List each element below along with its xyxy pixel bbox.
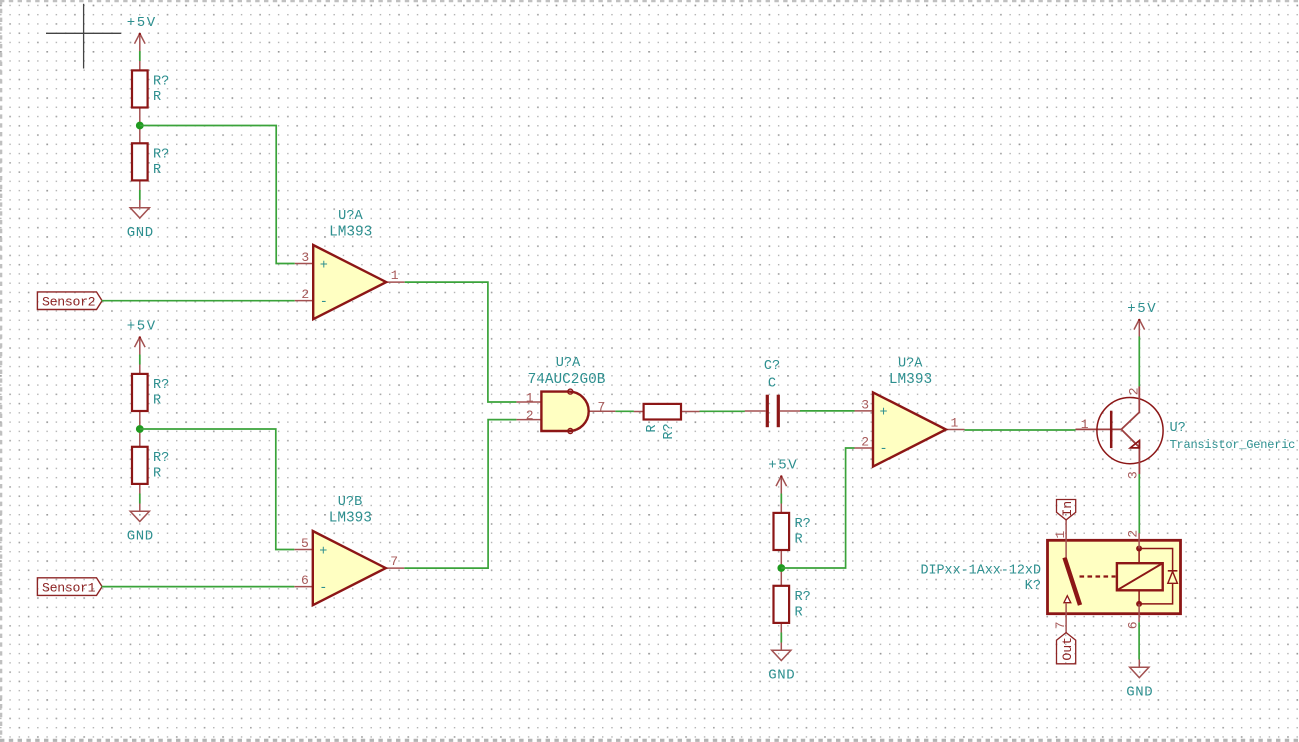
- resistor R? (divider3 top) (vertical): [774, 494, 790, 568]
- hierarchical label Out: [1057, 633, 1076, 664]
- junction node divider2 mid: [136, 425, 144, 433]
- svg-text:GND: GND: [127, 529, 154, 545]
- svg-text:Transistor_Generic: Transistor_Generic: [1170, 438, 1296, 452]
- svg-text:R: R: [153, 393, 161, 408]
- svg-text:-: -: [319, 581, 327, 596]
- power symbol +5V (PWR2): [135, 336, 146, 354]
- wire Sensor1 to U?B pin6: [102, 586, 295, 588]
- svg-text:6: 6: [1125, 621, 1140, 629]
- svg-text:R?: R?: [662, 423, 677, 439]
- svg-text:7: 7: [1053, 621, 1068, 629]
- svg-text:R: R: [645, 424, 660, 432]
- svg-text:3: 3: [861, 397, 869, 412]
- relay coil box: [1117, 563, 1163, 590]
- relay pin 7 lead: [1065, 603, 1067, 633]
- svg-text:2: 2: [301, 287, 309, 302]
- junction coil top node: [1136, 546, 1142, 552]
- svg-text:3: 3: [1126, 471, 1141, 479]
- svg-text:Sensor1: Sensor1: [42, 580, 96, 595]
- svg-text:1: 1: [951, 415, 959, 430]
- svg-text:3: 3: [301, 250, 309, 265]
- power symbol +5V (PWR4 (transistor collector)): [1134, 319, 1145, 337]
- wire comparator3 output to transistor base: [965, 429, 1076, 431]
- svg-text:+5V: +5V: [1127, 301, 1157, 317]
- svg-text:1: 1: [1081, 417, 1089, 432]
- svg-text:2: 2: [526, 408, 534, 423]
- svg-text:R?: R?: [153, 378, 169, 393]
- svg-text:1: 1: [526, 391, 534, 406]
- resistor R? (horizontal, after gate): [634, 404, 700, 420]
- svg-text:C: C: [768, 376, 776, 391]
- wire +5V to R? (divider3 top): [780, 494, 782, 504]
- svg-text:R?: R?: [153, 148, 169, 163]
- wire gate output to horizontal resistor: [615, 410, 633, 412]
- junction coil bottom node: [1136, 601, 1142, 607]
- svg-text:K?: K?: [1025, 579, 1041, 594]
- svg-text:R?: R?: [795, 517, 811, 532]
- relay K? (DIPxx-1Axx-12xD) body: [1048, 540, 1181, 613]
- svg-text:-: -: [320, 295, 328, 310]
- svg-text:+5V: +5V: [127, 15, 157, 31]
- svg-text:Out: Out: [1060, 637, 1075, 661]
- sheet border top: [0, 0, 1299, 2]
- svg-text:U?B: U?B: [338, 495, 362, 510]
- svg-text:+: +: [320, 258, 328, 273]
- svg-text:R?: R?: [795, 590, 811, 605]
- svg-text:U?A: U?A: [898, 357, 923, 372]
- svg-text:74AUC2G0B: 74AUC2G0B: [528, 372, 606, 388]
- svg-text:C?: C?: [764, 359, 780, 374]
- svg-text:LM393: LM393: [329, 511, 372, 527]
- transistor Q U? (Transistor_Generic NPN): [1076, 386, 1164, 474]
- svg-text:+5V: +5V: [768, 458, 798, 474]
- svg-text:R?: R?: [153, 451, 169, 466]
- svg-text:Sensor2: Sensor2: [42, 294, 95, 309]
- wire horizontal resistor to capacitor: [700, 410, 745, 412]
- svg-text:R: R: [795, 532, 803, 547]
- relay switch contact: [1064, 596, 1071, 603]
- sheet border left: [0, 0, 2, 742]
- op-amp U?A (comparator 3): [855, 392, 965, 466]
- wire R? (divider3 bottom) to GND: [780, 633, 782, 643]
- svg-text:1: 1: [391, 268, 399, 283]
- junction node divider1 mid: [136, 122, 144, 130]
- relay actuator dashed link: [1080, 575, 1116, 577]
- svg-text:7: 7: [598, 400, 606, 415]
- svg-text:5: 5: [301, 536, 309, 551]
- svg-text:LM393: LM393: [329, 225, 372, 241]
- svg-text:R: R: [153, 90, 161, 105]
- op-amp U?B (comparator 2): [294, 531, 404, 605]
- svg-text:LM393: LM393: [889, 372, 932, 388]
- svg-text:+: +: [319, 544, 327, 559]
- wire transistor emitter to relay pin2: [1138, 474, 1140, 533]
- junction node divider3 mid: [777, 564, 785, 572]
- svg-text:2: 2: [1125, 530, 1140, 538]
- capacitor C?: [745, 395, 801, 428]
- power symbol GND (GND2): [130, 503, 149, 521]
- wire capacitor to U?A comparator3 pin3: [800, 410, 855, 412]
- svg-text:6: 6: [301, 573, 309, 588]
- svg-text:GND: GND: [768, 668, 795, 684]
- svg-text:In: In: [1060, 501, 1075, 517]
- resistor R? (divider1 bottom) (vertical): [132, 125, 148, 199]
- wire divider2 node to U?B pin5: [140, 429, 294, 550]
- hierarchical label Sensor2 (input label Sensor2): [37, 292, 102, 310]
- wire U?A output to gate pin1: [405, 282, 517, 402]
- wire +5V to transistor collector: [1138, 336, 1140, 386]
- relay flyback diode: [1168, 571, 1178, 584]
- resistor R? (divider2 top) (vertical): [132, 355, 148, 429]
- wire +5V to R? (divider1 top): [139, 51, 141, 61]
- resistor R? (divider1 top) (vertical): [132, 52, 148, 126]
- svg-text:R: R: [153, 466, 161, 481]
- power symbol +5V (PWR3): [776, 475, 787, 493]
- svg-text:1: 1: [1053, 531, 1068, 539]
- power symbol GND (GND1): [130, 200, 149, 218]
- wire divider1 node to U?A pin3: [140, 126, 295, 264]
- svg-text:R: R: [153, 163, 161, 178]
- relay pin 6 lead: [1138, 604, 1140, 622]
- resistor R? (divider3 bottom) (vertical): [774, 567, 790, 641]
- svg-text:R?: R?: [153, 75, 169, 90]
- svg-text:GND: GND: [1126, 685, 1153, 701]
- hierarchical label Sensor1 (input label Sensor1): [37, 578, 102, 596]
- wire +5V to R? (divider2 top): [139, 355, 141, 365]
- svg-text:+: +: [880, 406, 888, 421]
- svg-text:-: -: [880, 442, 888, 457]
- hierarchical label In: [1057, 500, 1076, 520]
- relay switch blade: [1065, 558, 1081, 606]
- wire R? (divider2 bottom) to GND: [139, 494, 141, 504]
- svg-text:R: R: [795, 605, 803, 620]
- power symbol GND (GND3): [772, 642, 791, 660]
- power symbol +5V (PWR1): [135, 33, 146, 51]
- origin crosshair marker: [46, 4, 121, 69]
- svg-text:2: 2: [861, 434, 869, 449]
- svg-text:GND: GND: [127, 225, 154, 241]
- wire Sensor2 to U?A pin2: [102, 300, 295, 302]
- relay internal connection (coil + diode net): [1139, 549, 1173, 604]
- logic gate U?A (74AUC2G0B): [516, 389, 615, 433]
- wire R? (divider1 bottom) to GND: [139, 190, 141, 200]
- relay pin 2 lead: [1138, 533, 1140, 549]
- svg-text:U?A: U?A: [338, 209, 363, 224]
- power symbol GND (GND4 (relay coil)): [1130, 659, 1149, 677]
- resistor R? (divider2 bottom) (vertical): [132, 428, 148, 502]
- svg-text:DIPxx-1Axx-12xD: DIPxx-1Axx-12xD: [920, 564, 1041, 579]
- svg-text:U?: U?: [1170, 421, 1186, 436]
- svg-text:+5V: +5V: [127, 319, 157, 335]
- relay pin 1 lead: [1065, 520, 1067, 558]
- op-amp U?A (comparator 1): [295, 245, 405, 319]
- svg-text:U?A: U?A: [556, 356, 581, 371]
- svg-text:2: 2: [1127, 387, 1142, 395]
- wire U?B output to gate pin2: [404, 420, 516, 568]
- wire divider3 node to comparator3 pin2: [781, 448, 854, 568]
- sheet border bottom: [0, 739, 1299, 742]
- svg-text:7: 7: [390, 554, 398, 569]
- wire relay pin6 to GND: [1138, 622, 1140, 659]
